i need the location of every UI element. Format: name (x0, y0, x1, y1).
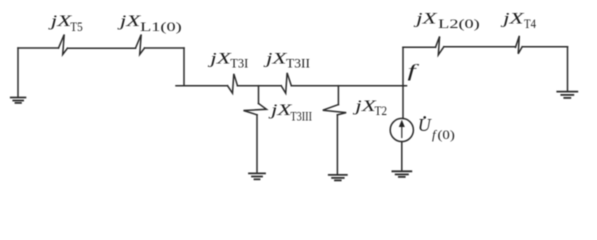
svg-text:jX: jX (263, 50, 287, 67)
wire: top-right horizontal segment (node f corner to XL2) (403, 46, 436, 48)
wire: middle bus segment (left overshoot to XT3I) (176, 85, 228, 87)
wire: top-right horizontal segment (XT4 to right corner) (522, 46, 567, 48)
label jXT4 (500, 11, 536, 32)
wire: top-right horizontal segment (XL2 to XT4) (444, 46, 516, 48)
label jXT3II (263, 50, 310, 70)
label jXL1(0) (117, 13, 182, 34)
wire: XT2 branch lower vertical to ground (336, 115, 338, 175)
wire: source lower vertical to ground (401, 142, 403, 171)
wire: XT3III branch lower vertical to ground (256, 115, 258, 173)
wire: top-left horizontal segment (XT5 to XL1) (68, 47, 136, 49)
reactance jXT3I (zigzag break) (228, 74, 238, 93)
svg-text:jX: jX (48, 13, 72, 30)
label jXL2(0) (413, 11, 480, 32)
svg-text:T3III: T3III (290, 109, 312, 124)
label Uf(0) (418, 115, 455, 142)
label jXT3III (268, 102, 312, 124)
svg-text:jX: jX (413, 11, 437, 28)
wire: right vertical drop to ground (567, 47, 569, 91)
ground GND2 (under XT3III) (249, 173, 265, 179)
svg-text:(0): (0) (438, 127, 455, 142)
wire: middle bus segment (XT3II to node f) (291, 85, 406, 87)
reactance jXL2(0) (zigzag break) (436, 36, 444, 55)
svg-text:T3I: T3I (230, 55, 248, 70)
ground GND1 (left) (11, 98, 26, 103)
ground GND4 (under source) (392, 171, 411, 177)
wire: top-left horizontal segment (XL1 to corner) (145, 47, 185, 49)
wire: left vertical drop to ground (17, 48, 19, 97)
svg-text:jX: jX (352, 98, 376, 115)
wire: node f vertical (top wire through node f down to source) (402, 47, 404, 118)
ground GND3 (under XT2) (329, 175, 347, 181)
wire: XT2 branch upper vertical (337, 86, 339, 105)
wire: top-left horizontal segment (left end to XT5) (18, 47, 59, 49)
reactance jXT2 (vertical zigzag break) (323, 105, 346, 115)
reactance jXT5 (zigzag break) (59, 35, 68, 55)
label jXT5 (48, 13, 83, 34)
reactance jXT4 (zigzag break) (516, 36, 523, 54)
reactance jXL1(0) (zigzag break) (136, 35, 145, 55)
wire: vertical from top-left wire down to middle bus (183, 48, 185, 86)
svg-text:T4: T4 (524, 16, 536, 31)
svg-text:T5: T5 (70, 19, 82, 34)
svg-text:T3II: T3II (286, 55, 310, 70)
svg-text:T2: T2 (375, 103, 388, 118)
svg-text:jX: jX (207, 50, 231, 67)
label jXT2 (352, 98, 387, 118)
svg-text:jX: jX (500, 11, 524, 28)
wire: middle bus segment (XT3I to XT3II) (238, 85, 282, 87)
label jXT3I (207, 50, 248, 70)
reactance jXT3III (vertical zigzag break) (244, 104, 267, 115)
reactance jXT3II (zigzag break) (281, 73, 291, 93)
wire: XT3III branch upper vertical (258, 86, 260, 104)
svg-text:f: f (408, 61, 421, 81)
svg-text:L1(0): L1(0) (140, 19, 182, 34)
svg-text:jX: jX (268, 102, 292, 119)
ground GND5 (right) (557, 92, 577, 98)
svg-text:L2(0): L2(0) (438, 16, 480, 31)
svg-text:jX: jX (117, 13, 141, 30)
source Uf(0) (circle with upward arrow) (390, 118, 413, 141)
